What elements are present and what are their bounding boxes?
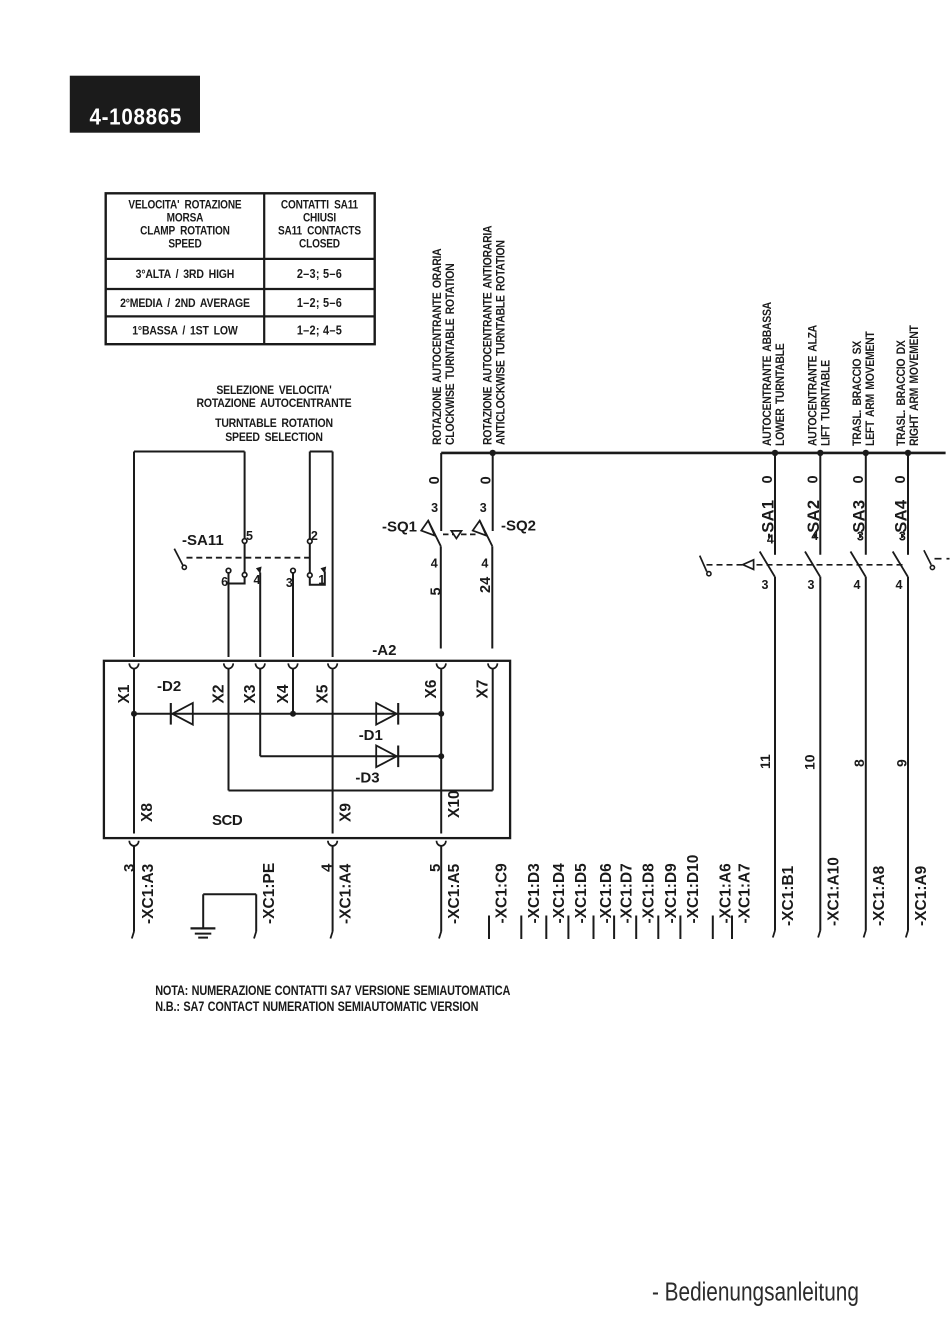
svg-text:SPEED SELECTION: SPEED SELECTION [225,431,323,444]
svg-text:-XC1:D8: -XC1:D8 [641,863,658,924]
svg-text:1–2; 4–5: 1–2; 4–5 [297,324,342,338]
svg-text:X6: X6 [423,679,440,698]
svg-text:3: 3 [808,578,815,592]
svg-text:3: 3 [857,530,864,544]
svg-text:SCD: SCD [212,812,243,829]
svg-text:0: 0 [851,475,867,483]
svg-text:AUTOCENTRANTE ALZA: AUTOCENTRANTE ALZA [807,325,820,446]
svg-text:LIFT TURNTABLE: LIFT TURNTABLE [820,359,833,446]
svg-text:-D2: -D2 [157,678,181,695]
svg-text:LOWER TURNTABLE: LOWER TURNTABLE [774,343,787,446]
svg-text:24: 24 [478,577,494,593]
svg-text:3: 3 [899,530,906,544]
svg-text:-A2: -A2 [372,642,396,659]
svg-text:4: 4 [854,578,861,592]
svg-text:-XC1:D5: -XC1:D5 [573,863,590,924]
svg-text:11: 11 [757,754,773,769]
svg-text:3: 3 [480,501,487,515]
svg-text:X5: X5 [315,684,332,703]
svg-text:ROTAZIONE AUTOCENTRANTE ORARIA: ROTAZIONE AUTOCENTRANTE ORARIA [431,248,444,445]
svg-text:SPEED: SPEED [168,238,202,251]
svg-text:4: 4 [319,863,336,872]
svg-text:0: 0 [805,475,821,483]
svg-text:1: 1 [318,573,325,587]
svg-text:2°MEDIA / 2ND AVERAGE: 2°MEDIA / 2ND AVERAGE [120,297,250,310]
svg-text:-XC1:A10: -XC1:A10 [825,857,842,926]
svg-text:MORSA: MORSA [167,212,204,225]
svg-text:CLOCKWISE TURNTABLE ROTATION: CLOCKWISE TURNTABLE ROTATION [444,263,457,445]
svg-text:CHIUSI: CHIUSI [303,212,336,225]
svg-text:CLOSED: CLOSED [299,238,340,251]
svg-text:-D1: -D1 [359,727,383,744]
svg-text:3°ALTA / 3RD HIGH: 3°ALTA / 3RD HIGH [136,268,235,281]
svg-text:4: 4 [431,557,438,571]
svg-text:SELEZIONE VELOCITA': SELEZIONE VELOCITA' [216,384,332,397]
svg-text:4: 4 [254,573,261,587]
svg-text:- Bedienungsanleitung: - Bedienungsanleitung [652,1277,859,1306]
svg-text:-XC1:D6: -XC1:D6 [598,863,615,924]
svg-text:10: 10 [802,754,818,770]
svg-text:-D3: -D3 [355,770,379,787]
svg-text:-XC1:A4: -XC1:A4 [338,863,355,924]
svg-text:4: 4 [896,578,903,592]
svg-text:SA11 CONTACTS: SA11 CONTACTS [278,225,361,238]
svg-text:AUTOCENTRANTE ABBASSA: AUTOCENTRANTE ABBASSA [761,302,774,446]
svg-text:-XC1:D10: -XC1:D10 [685,855,702,924]
svg-text:0: 0 [479,476,495,484]
svg-text:5: 5 [246,529,253,543]
svg-text:3: 3 [762,578,769,592]
svg-text:X3: X3 [242,684,259,703]
svg-text:LEFT ARM MOVEMENT: LEFT ARM MOVEMENT [864,331,877,446]
svg-text:X7: X7 [475,680,492,699]
svg-text:2–3; 5–6: 2–3; 5–6 [297,267,342,281]
svg-text:0: 0 [760,475,776,483]
svg-text:-XC1:A3: -XC1:A3 [140,863,157,924]
svg-text:-XC1:A7: -XC1:A7 [737,863,754,923]
svg-text:ROTAZIONE AUTOCENTRANTE ANTIOR: ROTAZIONE AUTOCENTRANTE ANTIORARIA [482,226,495,445]
svg-text:8: 8 [851,759,867,767]
svg-text:4: 4 [481,557,488,571]
svg-text:-XC1:A9: -XC1:A9 [913,865,930,926]
svg-text:4: 4 [811,529,818,543]
svg-text:TRASL. BRACCIO DX: TRASL. BRACCIO DX [895,340,908,446]
svg-text:-XC1:C9: -XC1:C9 [494,863,511,924]
svg-text:X1: X1 [116,684,133,703]
svg-text:TURNTABLE ROTATION: TURNTABLE ROTATION [215,417,333,430]
svg-text:3: 3 [121,864,138,872]
svg-text:RIGHT ARM MOVEMENT: RIGHT ARM MOVEMENT [908,325,921,446]
svg-text:4-108865: 4-108865 [90,103,183,130]
svg-text:VELOCITA' ROTAZIONE: VELOCITA' ROTAZIONE [128,199,241,212]
svg-text:2: 2 [311,529,318,543]
svg-text:-XC1:D7: -XC1:D7 [619,863,636,923]
svg-text:X9: X9 [338,803,355,822]
svg-text:5: 5 [427,864,444,872]
svg-text:1–2; 5–6: 1–2; 5–6 [297,296,342,310]
svg-text:-SQ1: -SQ1 [382,519,417,536]
svg-text:-SA11: -SA11 [182,532,224,549]
svg-text:-XC1:D4: -XC1:D4 [551,863,568,924]
svg-text:6: 6 [221,575,228,589]
svg-text:X2: X2 [211,685,228,704]
svg-text:-XC1:D9: -XC1:D9 [663,863,680,924]
svg-text:ROTAZIONE AUTOCENTRANTE: ROTAZIONE AUTOCENTRANTE [197,397,353,410]
svg-text:ANTICLOCKWISE TURNTABLE ROTATI: ANTICLOCKWISE TURNTABLE ROTATION [495,240,508,445]
svg-text:NOTA: NUMERAZIONE CONTATTI SA7: NOTA: NUMERAZIONE CONTATTI SA7 VERSIONE … [155,983,510,999]
svg-text:-XC1:A5: -XC1:A5 [446,863,463,924]
svg-text:N.B.: SA7 CONTACT NUMERATION S: N.B.: SA7 CONTACT NUMERATION SEMIAUTOMAT… [155,999,478,1015]
svg-text:X4: X4 [275,684,292,703]
svg-text:3: 3 [431,501,438,515]
svg-text:0: 0 [427,476,443,484]
svg-text:-XC1:B1: -XC1:B1 [780,865,797,926]
svg-text:4: 4 [767,533,774,547]
svg-text:9: 9 [894,759,910,767]
svg-text:CLAMP ROTATION: CLAMP ROTATION [140,225,230,238]
svg-text:-XC1:PE: -XC1:PE [261,863,278,924]
svg-text:TRASL. BRACCIO SX: TRASL. BRACCIO SX [851,340,864,446]
svg-text:-SQ2: -SQ2 [501,518,536,535]
svg-text:0: 0 [893,475,909,483]
svg-text:-XC1:A6: -XC1:A6 [717,863,734,924]
svg-text:CONTATTI SA11: CONTATTI SA11 [281,199,358,212]
svg-text:X10: X10 [446,790,463,818]
svg-text:-XC1:A8: -XC1:A8 [871,865,888,926]
svg-text:1°BASSA / 1ST LOW: 1°BASSA / 1ST LOW [132,325,238,338]
svg-text:5: 5 [429,587,445,595]
svg-text:X8: X8 [139,803,156,822]
svg-text:3: 3 [286,576,293,590]
svg-text:-XC1:D3: -XC1:D3 [526,863,543,924]
